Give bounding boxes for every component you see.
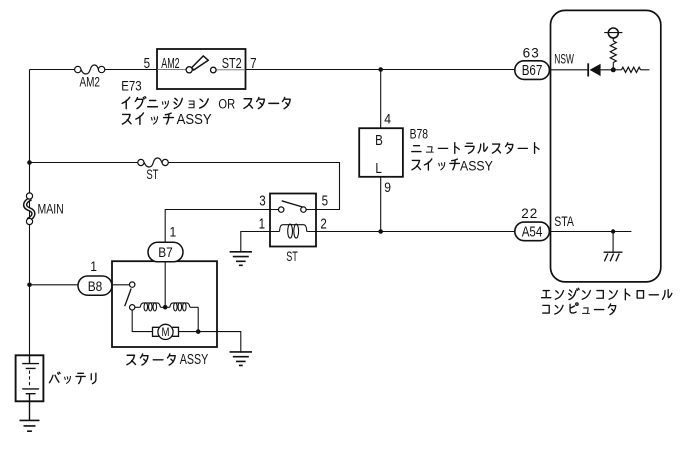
svg-text:AM2: AM2	[79, 74, 100, 90]
connector B8	[78, 276, 112, 295]
node: STA internal junction	[611, 229, 615, 233]
svg-text:L: L	[375, 160, 381, 177]
svg-text:E73: E73	[121, 77, 141, 93]
wire: bus to fuse AM2	[30, 69, 75, 71]
svg-text:ST: ST	[286, 248, 298, 265]
resistor: NSW series (horizontal)	[613, 69, 621, 71]
fusible link MAIN	[25, 193, 33, 225]
svg-text:1: 1	[90, 258, 97, 274]
svg-text:M: M	[162, 326, 170, 339]
starter relay coil	[270, 231, 316, 233]
ground: STA chassis ground	[604, 252, 623, 261]
svg-text:1: 1	[259, 215, 265, 232]
ignition switch assy E73 box	[157, 49, 246, 89]
ignition switch movable contact	[186, 56, 216, 73]
wire: battery main vertical bus	[29, 70, 31, 356]
engine control computer box	[551, 10, 661, 282]
fuse ST	[138, 158, 169, 167]
label: neutral start (katakana)	[412, 146, 421, 152]
hold-in coil	[170, 303, 190, 307]
ground: starter relay coil	[230, 252, 252, 265]
svg-text:ST2: ST2	[222, 54, 242, 71]
svg-text:63: 63	[523, 45, 540, 60]
node: bus / ST fuse tap	[27, 160, 32, 165]
ground: starter motor	[230, 352, 252, 366]
svg-text:9: 9	[384, 179, 391, 195]
svg-text:OR: OR	[218, 96, 235, 111]
wire: starter relay pin 2 to ECU pin A54	[316, 231, 515, 233]
battery	[16, 355, 44, 420]
connector pin oval A54	[515, 222, 550, 241]
svg-text:AM2: AM2	[161, 55, 180, 72]
label: ignition or starter switch assy (katakana)	[122, 97, 130, 108]
svg-text:B67: B67	[522, 62, 543, 79]
connector B7	[148, 242, 183, 261]
svg-text:7: 7	[250, 55, 256, 72]
fuse AM2	[75, 65, 105, 74]
node: bus / B8 tap	[27, 283, 32, 288]
starter assy box	[112, 261, 217, 347]
wire: fuse ST to starter relay pin 5	[168, 163, 339, 210]
wire: NSW internal	[549, 69, 613, 71]
node: coil junction to B7	[163, 305, 168, 310]
svg-text:ASSY: ASSY	[180, 350, 209, 367]
svg-text:5: 5	[144, 55, 150, 72]
svg-text:NSW: NSW	[554, 53, 574, 68]
svg-text:ASSY: ASSY	[460, 158, 493, 174]
node: NSW internal junction	[611, 67, 616, 72]
svg-text:22: 22	[521, 206, 538, 221]
svg-text:ASSY: ASSY	[177, 111, 212, 128]
wire: STA internal	[549, 232, 631, 253]
pull-in coil	[140, 303, 160, 307]
svg-text:3: 3	[259, 192, 265, 209]
wire: starter relay pin 3 to connector B7	[165, 210, 270, 243]
wire: ignition switch pin 7 to ECU pin B67	[246, 69, 515, 71]
label: switch assy (katakana+ASSY)	[122, 114, 131, 124]
wire: starter relay pin 1 to ground	[241, 232, 270, 252]
label: engine control computer (katakana)	[542, 291, 551, 298]
wire: NSW node down to neutral start switch pin 4	[380, 70, 382, 129]
svg-text:ST: ST	[146, 166, 159, 182]
neutral start switch box B78	[359, 128, 403, 177]
svg-text:B8: B8	[88, 278, 103, 294]
svg-text:B78: B78	[410, 126, 429, 142]
wire: bus to fuse ST	[30, 162, 138, 164]
svg-text:STA: STA	[554, 213, 574, 229]
wire: contact row inside ignition switch	[157, 69, 246, 71]
ground: battery	[20, 420, 40, 431]
label: switch assy (katakana+ASSY)	[412, 160, 420, 169]
starter magnetic switch contacts	[112, 282, 135, 310]
starter relay box	[270, 194, 316, 247]
svg-text:5: 5	[322, 192, 328, 209]
starter solenoid wiring	[132, 307, 241, 353]
svg-text:B: B	[375, 132, 383, 149]
internal power source symbol	[604, 28, 622, 38]
svg-text:1: 1	[170, 224, 177, 240]
node: starter output junction	[196, 329, 201, 334]
diode: NSW input	[587, 63, 589, 76]
node: NSW wire junction	[378, 67, 383, 72]
label: battery (katakana)	[49, 372, 60, 382]
wire: fuse AM2 to ignition switch pin 5	[105, 69, 157, 71]
node: STA wire junction	[378, 229, 383, 234]
resistor: NSW pull-up (vertical)	[612, 38, 614, 41]
svg-text:MAIN: MAIN	[38, 201, 64, 217]
connector pin oval B67	[515, 61, 550, 80]
wire: connector B7 to starter coil node	[164, 262, 166, 307]
svg-text:A54: A54	[522, 223, 543, 240]
starter relay contact	[270, 209, 316, 211]
wire: bus to connector B8	[30, 284, 79, 286]
svg-text:4: 4	[384, 111, 391, 127]
svg-text:2: 2	[320, 215, 326, 232]
wire: neutral start switch pin 9 down to STA row	[380, 177, 382, 232]
starter motor M	[153, 324, 179, 339]
svg-text:B7: B7	[158, 244, 173, 260]
label: starter assy (katakana+ASSY)	[127, 355, 136, 365]
